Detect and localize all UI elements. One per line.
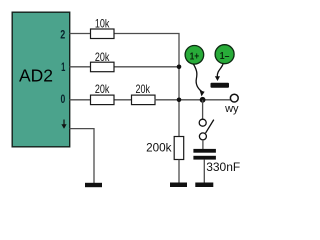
svg-text:200k: 200k: [146, 142, 172, 155]
ground bar under AD2: [85, 183, 102, 187]
capacitor C1 330nF: [193, 149, 240, 174]
wire pin0 to R 20k a: [70, 99, 91, 101]
junction dot row1 bus: [177, 65, 182, 70]
switch S1: [199, 119, 214, 140]
ground bar under 200k: [170, 183, 187, 188]
resistor 20k row1: [91, 50, 115, 72]
probe U2 1+: [185, 46, 204, 65]
resistor 200k: [146, 137, 184, 160]
wire node row0 to output: [155, 99, 231, 101]
svg-text:wy: wy: [224, 103, 239, 115]
ground bar under capacitor: [195, 183, 213, 188]
svg-text:AD2: AD2: [19, 66, 53, 86]
wire 200k to ground: [178, 160, 180, 183]
wire switch to capacitor: [202, 140, 204, 149]
resistor 20k row0 a: [91, 82, 115, 105]
wire AD2 ground pin: [70, 129, 95, 183]
wire capacitor to ground: [203, 160, 205, 183]
svg-text:1+: 1+: [190, 51, 200, 63]
terminal wy: [224, 94, 239, 115]
wire R 10k to bus corner: [114, 34, 180, 67]
wire node to switch: [202, 100, 204, 119]
wire pin1 to R 20k: [70, 66, 91, 68]
svg-text:20k: 20k: [136, 82, 151, 96]
svg-text:330nF: 330nF: [206, 160, 240, 174]
resistor 20k row0 b: [132, 82, 156, 105]
probe lead 1-: [215, 64, 223, 82]
svg-text:0: 0: [61, 92, 66, 106]
probe U3 1-: [215, 45, 234, 64]
svg-text:20k: 20k: [95, 50, 110, 64]
ground clip bar of probe 1-: [211, 83, 230, 88]
wire between 20k a and 20k b: [114, 99, 132, 101]
svg-text:1: 1: [61, 60, 65, 74]
svg-text:10k: 10k: [95, 16, 110, 30]
wire R 20k to bus: [114, 66, 180, 68]
bus vertical wire down to 200k: [178, 67, 180, 137]
svg-text:2: 2: [60, 28, 65, 42]
svg-text:1–: 1–: [220, 50, 230, 62]
probe lead 1+: [193, 64, 204, 96]
svg-text:20k: 20k: [95, 82, 110, 96]
resistor 10k: [91, 16, 115, 38]
IC U1 AD2: [12, 12, 69, 147]
pin arrow (ground pin of AD2): [61, 120, 66, 129]
junction dot row0 bus: [177, 98, 182, 103]
wire pin2 to R 10k: [70, 33, 91, 35]
junction dot output node: [200, 97, 206, 103]
